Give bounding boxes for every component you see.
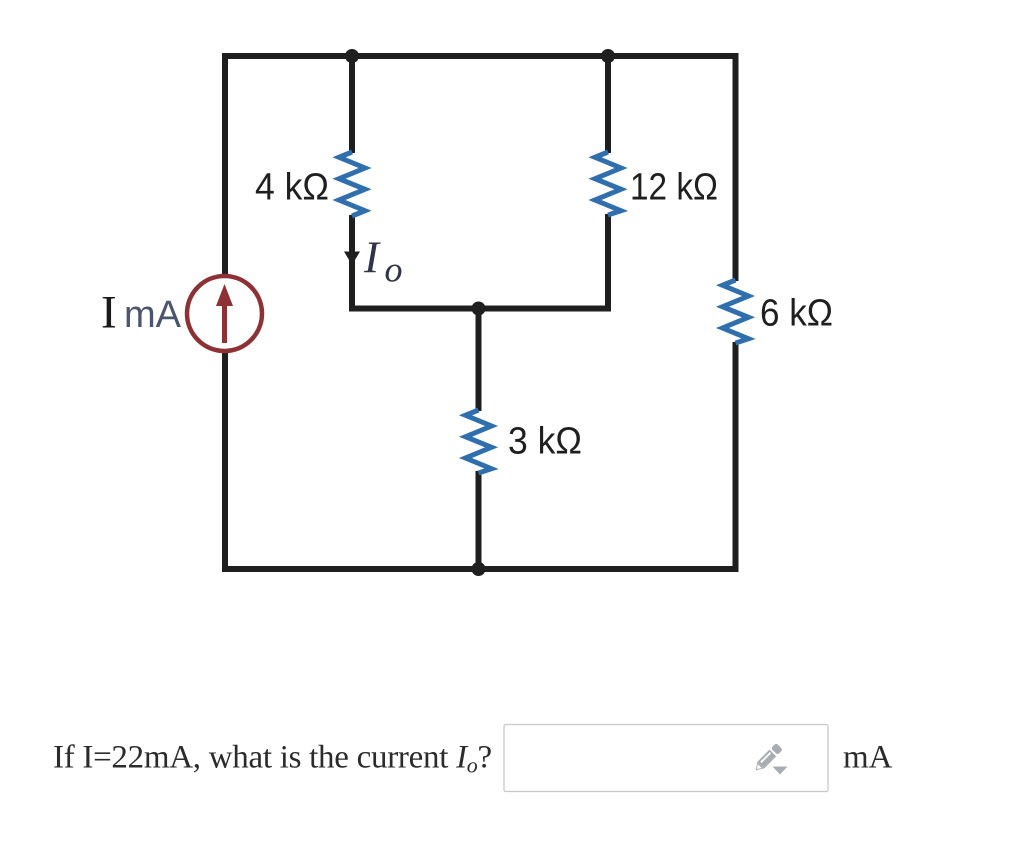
node dot bottom (3k/bottom wire) — [472, 562, 486, 576]
wire: 3k bottom lead — [476, 471, 482, 572]
svg-text:mA: mA — [843, 740, 893, 776]
node dot middle (3k/middle wire) — [472, 302, 486, 316]
svg-text:If I=22mA, what is the current: If I=22mA, what is the current Io? — [53, 740, 492, 778]
wire: top horizontal — [222, 53, 739, 59]
resistor R2 12k zigzag — [595, 152, 621, 215]
Io arrow on 4k branch — [344, 252, 360, 266]
svg-text:4 kΩ: 4 kΩ — [255, 167, 329, 209]
svg-text:I: I — [363, 233, 381, 283]
svg-text:o: o — [385, 250, 403, 290]
wire: 4k top lead — [349, 53, 355, 153]
svg-text:mA: mA — [124, 294, 182, 336]
current source arrow — [222, 303, 227, 343]
wire: bottom horizontal — [222, 566, 739, 572]
wire: 12k bottom lead — [605, 214, 611, 312]
node dot top-right (12k/top wire) — [601, 49, 615, 63]
dropdown triangle — [773, 767, 788, 775]
node dot top-left (4k/top wire) — [345, 49, 359, 63]
resistor R1 4k zigzag — [339, 152, 365, 216]
wire: Io branch (4k bottom lead) — [349, 215, 355, 312]
answer input box — [504, 725, 828, 792]
svg-text:3 kΩ: 3 kΩ — [508, 421, 582, 463]
wire: right vertical lower (from 6k) — [733, 342, 739, 572]
resistor R4 3k zigzag — [466, 410, 492, 473]
svg-text:I: I — [101, 287, 117, 339]
resistor R3 6k zigzag — [723, 280, 749, 343]
wire: left vertical — [222, 53, 228, 572]
svg-text:6 kΩ: 6 kΩ — [760, 293, 833, 335]
wire: 3k top lead — [476, 306, 482, 412]
wire: middle horizontal — [349, 306, 611, 312]
svg-text:12 kΩ: 12 kΩ — [630, 167, 718, 209]
wire: 12k top lead — [605, 53, 611, 153]
current source I (circle) — [187, 276, 262, 351]
edit pencil icon — [752, 743, 783, 774]
wire: right vertical upper (to 6k) — [733, 53, 739, 281]
